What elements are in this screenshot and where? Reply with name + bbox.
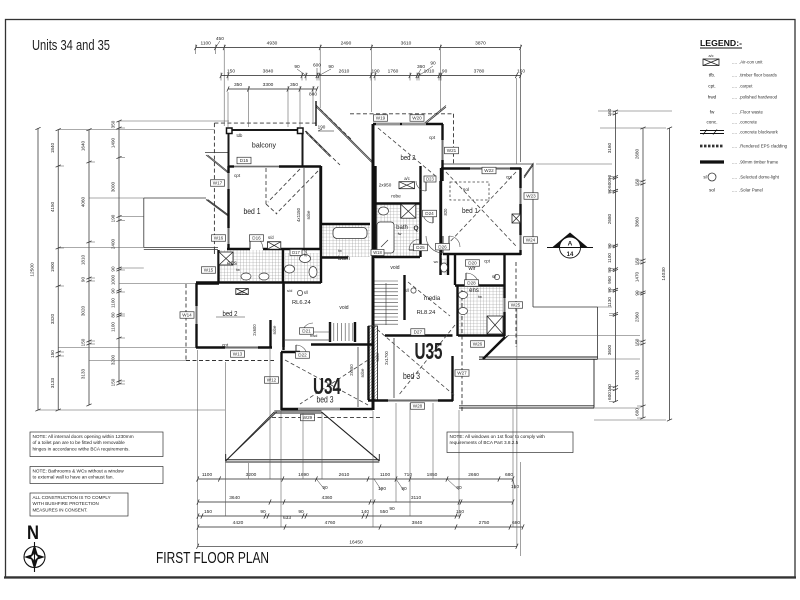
svg-text:W12: W12 (267, 378, 277, 383)
svg-text:W17: W17 (213, 181, 223, 186)
svg-text:cpt: cpt (506, 175, 513, 180)
svg-text:D22: D22 (298, 353, 307, 358)
svg-text:1900: 1900 (50, 261, 55, 272)
svg-text:wlr: wlr (467, 266, 475, 272)
svg-text:2360: 2360 (635, 311, 640, 322)
svg-text:s/l: s/l (304, 290, 308, 295)
svg-text:1690: 1690 (298, 472, 309, 478)
svg-text:190: 190 (318, 125, 326, 130)
svg-text:4150: 4150 (50, 201, 55, 212)
svg-text:2x650: 2x650 (349, 364, 354, 376)
svg-text:2680: 2680 (635, 148, 640, 159)
svg-text:void: void (339, 305, 348, 311)
svg-text:D15: D15 (240, 158, 249, 163)
svg-text:....: .... (732, 95, 737, 100)
svg-text:cpt: cpt (234, 173, 241, 178)
svg-text:robe: robe (360, 368, 365, 377)
svg-text:2x600: 2x600 (252, 324, 257, 336)
svg-text:robe: robe (391, 194, 401, 200)
svg-text:1760: 1760 (388, 69, 399, 75)
svg-text:hwd: hwd (708, 95, 717, 100)
svg-text:cpt: cpt (222, 343, 229, 348)
svg-text:1100: 1100 (201, 41, 212, 47)
svg-text:W13: W13 (233, 352, 243, 357)
svg-text:680: 680 (505, 472, 513, 478)
svg-text:void: void (390, 265, 399, 271)
svg-text:16450: 16450 (349, 540, 363, 546)
svg-text:W18: W18 (373, 250, 382, 255)
svg-text:450: 450 (216, 36, 224, 42)
svg-text:4x1150: 4x1150 (296, 207, 301, 222)
svg-text:wc: wc (434, 260, 439, 264)
svg-text:....: .... (732, 84, 737, 89)
svg-text:s/d: s/d (268, 235, 274, 240)
svg-text:90: 90 (260, 509, 266, 515)
svg-text:350: 350 (290, 82, 298, 88)
svg-text:90: 90 (442, 69, 448, 75)
svg-text:90: 90 (111, 266, 116, 272)
svg-text:a/c: a/c (708, 54, 713, 58)
svg-text:D26: D26 (438, 244, 447, 249)
svg-text:90: 90 (607, 188, 612, 194)
svg-text:1490: 1490 (111, 137, 116, 148)
svg-text:s/d: s/d (287, 288, 292, 293)
svg-text:bed 3: bed 3 (403, 371, 420, 381)
svg-text:W29: W29 (303, 415, 313, 420)
svg-text:NOTE: All internal doors openi: NOTE: All internal doors opening within … (33, 434, 134, 439)
svg-text:.timber floor boards: .timber floor boards (739, 73, 778, 78)
svg-text:D17: D17 (292, 250, 300, 255)
svg-text:950: 950 (607, 276, 612, 284)
svg-text:MEASURES IN CONSENT.: MEASURES IN CONSENT. (33, 507, 88, 512)
svg-text:W15: W15 (204, 268, 214, 273)
svg-text:1100: 1100 (607, 253, 612, 263)
svg-text:bath: bath (338, 256, 350, 262)
svg-text:600: 600 (607, 180, 612, 188)
svg-text:.Solar Panel: .Solar Panel (739, 188, 763, 193)
svg-text:to external wall to have an ex: to external wall to have an exhaust fan. (33, 475, 114, 480)
svg-text:W27: W27 (457, 371, 467, 376)
svg-text:bed 1: bed 1 (244, 207, 261, 216)
svg-text:bath: bath (396, 225, 408, 231)
svg-text:W24: W24 (526, 238, 536, 243)
svg-text:3110: 3110 (411, 495, 422, 501)
svg-text:3870: 3870 (475, 41, 486, 47)
svg-text:2610: 2610 (339, 69, 350, 75)
svg-text:WITH BUSHFIRE PROTECTION: WITH BUSHFIRE PROTECTION (33, 501, 99, 506)
svg-text:150: 150 (607, 108, 612, 116)
svg-text:A: A (568, 241, 573, 248)
svg-text:90: 90 (389, 506, 395, 512)
svg-text:90: 90 (635, 290, 640, 296)
svg-text:.Rendered EPS cladding: .Rendered EPS cladding (739, 144, 788, 149)
svg-text:80: 80 (111, 312, 116, 318)
svg-text:....: .... (732, 160, 737, 165)
svg-text:140: 140 (361, 509, 369, 515)
svg-text:150: 150 (50, 350, 55, 358)
svg-text:....: .... (732, 73, 737, 78)
svg-text:.90mm timber frame: .90mm timber frame (739, 160, 779, 165)
svg-text:3020: 3020 (81, 305, 86, 316)
svg-text:D28: D28 (467, 281, 476, 286)
svg-text:1850: 1850 (427, 472, 438, 478)
svg-text:robe: robe (306, 210, 311, 219)
svg-text:sl: sl (703, 175, 706, 180)
svg-text:2490: 2490 (341, 41, 352, 47)
svg-text:sol: sol (709, 188, 715, 193)
svg-text:W14: W14 (182, 313, 192, 318)
svg-text:3160: 3160 (607, 142, 612, 153)
svg-text:3610: 3610 (401, 41, 412, 47)
svg-text:710: 710 (404, 472, 412, 478)
svg-text:90: 90 (607, 243, 612, 249)
svg-text:a/c: a/c (238, 291, 244, 296)
svg-text:D21: D21 (302, 329, 311, 334)
svg-text:fw: fw (236, 268, 240, 272)
svg-text:....: .... (732, 60, 737, 65)
svg-text:190: 190 (111, 214, 116, 222)
svg-text:W22: W22 (484, 168, 494, 173)
svg-text:90: 90 (298, 509, 304, 515)
svg-text:3300: 3300 (263, 82, 274, 88)
svg-text:D23: D23 (426, 177, 434, 182)
svg-text:NOTE: Bathrooms & WCs without: NOTE: Bathrooms & WCs without a window (33, 469, 125, 474)
svg-text:633: 633 (283, 515, 291, 521)
svg-text:fw: fw (478, 295, 482, 299)
svg-text:W16: W16 (214, 236, 224, 241)
svg-text:.concrete: .concrete (739, 120, 758, 125)
svg-text:.Selected dome-light: .Selected dome-light (739, 175, 780, 180)
svg-text:3133: 3133 (81, 368, 86, 379)
svg-text:14: 14 (567, 252, 574, 258)
svg-text:190: 190 (371, 69, 379, 75)
svg-text:600: 600 (313, 63, 321, 69)
svg-text:600: 600 (635, 408, 640, 416)
svg-text:cpt.: cpt. (708, 84, 715, 89)
svg-text:ens: ens (469, 288, 479, 294)
svg-text:90: 90 (328, 64, 334, 70)
svg-text:cpt: cpt (484, 259, 491, 264)
svg-text:media: media (424, 296, 441, 302)
svg-text:D24: D24 (425, 211, 434, 216)
svg-text:4360: 4360 (322, 495, 333, 501)
svg-text:W26: W26 (473, 342, 483, 347)
svg-text:3640: 3640 (229, 495, 240, 501)
svg-text:.carpet: .carpet (739, 84, 753, 89)
svg-text:s/l: s/l (492, 274, 496, 279)
svg-text:W23: W23 (526, 194, 536, 199)
svg-text:1100: 1100 (380, 472, 391, 478)
svg-text:W19: W19 (376, 116, 386, 121)
svg-text:D20: D20 (468, 261, 477, 266)
svg-text:requirements of BCA Part 3.8.2: requirements of BCA Part 3.8.2.5 (450, 440, 519, 445)
svg-text:ens: ens (227, 261, 237, 267)
svg-text:.polished hardwood: .polished hardwood (739, 95, 778, 100)
svg-text:150: 150 (635, 338, 640, 346)
svg-text:balcony: balcony (252, 143, 277, 150)
svg-text:....: .... (732, 144, 737, 149)
svg-text:150: 150 (111, 378, 116, 386)
svg-text:robe: robe (272, 325, 277, 334)
svg-text:tfb.: tfb. (709, 73, 715, 78)
svg-text:150: 150 (635, 178, 640, 186)
svg-text:D16: D16 (252, 236, 261, 241)
svg-text:90: 90 (607, 175, 612, 181)
svg-text:1100: 1100 (111, 322, 116, 332)
svg-text:1470: 1470 (635, 271, 640, 282)
svg-text:....: .... (732, 120, 737, 125)
svg-text:a/c: a/c (404, 176, 410, 181)
svg-text:3780: 3780 (474, 69, 485, 75)
svg-text:4760: 4760 (325, 520, 336, 526)
svg-text:2680: 2680 (607, 213, 612, 224)
svg-text:3000: 3000 (111, 181, 116, 192)
svg-text:1000: 1000 (111, 274, 116, 285)
svg-text:3200: 3200 (111, 354, 116, 365)
svg-text:3130: 3130 (635, 369, 640, 380)
svg-text:810: 810 (303, 249, 308, 257)
svg-text:fw: fw (398, 232, 402, 236)
svg-text:bed 3: bed 3 (317, 395, 334, 405)
svg-text:1100: 1100 (202, 472, 213, 478)
svg-text:820: 820 (443, 208, 448, 216)
svg-text:D27: D27 (414, 330, 423, 335)
svg-text:conc.: conc. (707, 120, 718, 125)
svg-text:fw: fw (338, 249, 342, 253)
svg-text:90: 90 (401, 486, 407, 492)
svg-text:ALL CONSTRUCTION IS TO COMPLY: ALL CONSTRUCTION IS TO COMPLY (33, 495, 111, 500)
svg-text:bed 1: bed 1 (462, 206, 478, 215)
svg-text:2750: 2750 (479, 520, 490, 526)
svg-text:4060: 4060 (81, 196, 86, 207)
svg-text:s/l: s/l (405, 288, 409, 293)
svg-text:1840: 1840 (50, 142, 55, 153)
svg-text:14030: 14030 (661, 267, 667, 281)
svg-text:U35: U35 (415, 338, 443, 364)
svg-text:90: 90 (607, 267, 612, 273)
svg-text:3860: 3860 (635, 216, 640, 227)
svg-text:3133: 3133 (50, 377, 55, 388)
svg-text:Q: Q (413, 225, 418, 232)
svg-text:tdb: tdb (237, 133, 243, 138)
svg-text:W28: W28 (413, 404, 423, 409)
svg-text:3600: 3600 (607, 344, 612, 355)
svg-text:Units 34 and 35: Units 34 and 35 (32, 38, 110, 54)
svg-text:3320: 3320 (50, 313, 55, 324)
svg-text:150: 150 (607, 384, 612, 392)
svg-text:1100: 1100 (111, 298, 116, 308)
svg-text:150: 150 (204, 509, 212, 515)
svg-text:.Floor waste: .Floor waste (739, 110, 763, 115)
svg-text:350: 350 (111, 120, 116, 128)
svg-text:90: 90 (81, 277, 86, 283)
svg-text:150: 150 (635, 257, 640, 265)
svg-text:90: 90 (430, 61, 436, 67)
svg-text:3840: 3840 (263, 69, 274, 75)
svg-text:2x1700: 2x1700 (384, 350, 389, 364)
svg-text:LEGEND:-: LEGEND:- (700, 39, 742, 48)
svg-text:150: 150 (511, 484, 519, 490)
svg-text:bed 2: bed 2 (223, 309, 238, 318)
svg-text:W21: W21 (447, 148, 457, 153)
svg-text:cpt: cpt (429, 135, 436, 140)
svg-text:NOTE: All windows on 1st floor: NOTE: All windows on 1st floor to comply… (450, 434, 546, 439)
svg-text:3200: 3200 (246, 472, 257, 478)
svg-text:D25: D25 (416, 245, 425, 250)
svg-text:RL6.24: RL6.24 (292, 300, 311, 306)
svg-text:....: .... (732, 110, 737, 115)
svg-text:12500: 12500 (30, 263, 36, 277)
svg-text:1810: 1810 (81, 254, 86, 265)
svg-text:4930: 4930 (267, 41, 278, 47)
svg-text:150: 150 (81, 338, 86, 346)
svg-text:RL8.24: RL8.24 (417, 310, 436, 316)
svg-text:2x950: 2x950 (379, 183, 392, 188)
svg-text:2660: 2660 (468, 472, 479, 478)
svg-text:550: 550 (380, 509, 388, 515)
svg-text:4420: 4420 (233, 520, 244, 526)
svg-text:350: 350 (234, 82, 242, 88)
svg-text:2610: 2610 (339, 472, 350, 478)
svg-text:600: 600 (607, 392, 612, 400)
svg-text:hinges in accordance withe BCA: hinges in accordance withe BCA requireme… (33, 446, 130, 451)
svg-text:90: 90 (111, 288, 116, 294)
svg-text:150: 150 (517, 69, 525, 75)
svg-text:robe: robe (375, 352, 380, 361)
svg-text:bed 2: bed 2 (401, 153, 416, 162)
svg-text:....: .... (732, 188, 737, 193)
svg-text:90: 90 (607, 287, 612, 293)
svg-text:W20: W20 (412, 116, 422, 121)
svg-text:W25: W25 (511, 303, 521, 308)
svg-text:....: .... (732, 175, 737, 180)
svg-text:sol: sol (463, 187, 469, 193)
svg-text:N: N (27, 523, 39, 544)
svg-text:....: .... (732, 130, 737, 135)
svg-text:1130: 1130 (607, 297, 612, 307)
svg-text:of a toilet pan are to be fitt: of a toilet pan are to be fitted with re… (33, 440, 126, 445)
svg-text:fw: fw (710, 110, 715, 115)
svg-text:.Air-con unit: .Air-con unit (739, 60, 763, 65)
svg-text:FIRST FLOOR PLAN: FIRST FLOOR PLAN (156, 550, 269, 567)
svg-text:1640: 1640 (81, 140, 86, 151)
svg-text:150: 150 (456, 509, 464, 515)
svg-text:.concrete blockwork: .concrete blockwork (739, 130, 779, 135)
svg-text:3840: 3840 (412, 520, 423, 526)
